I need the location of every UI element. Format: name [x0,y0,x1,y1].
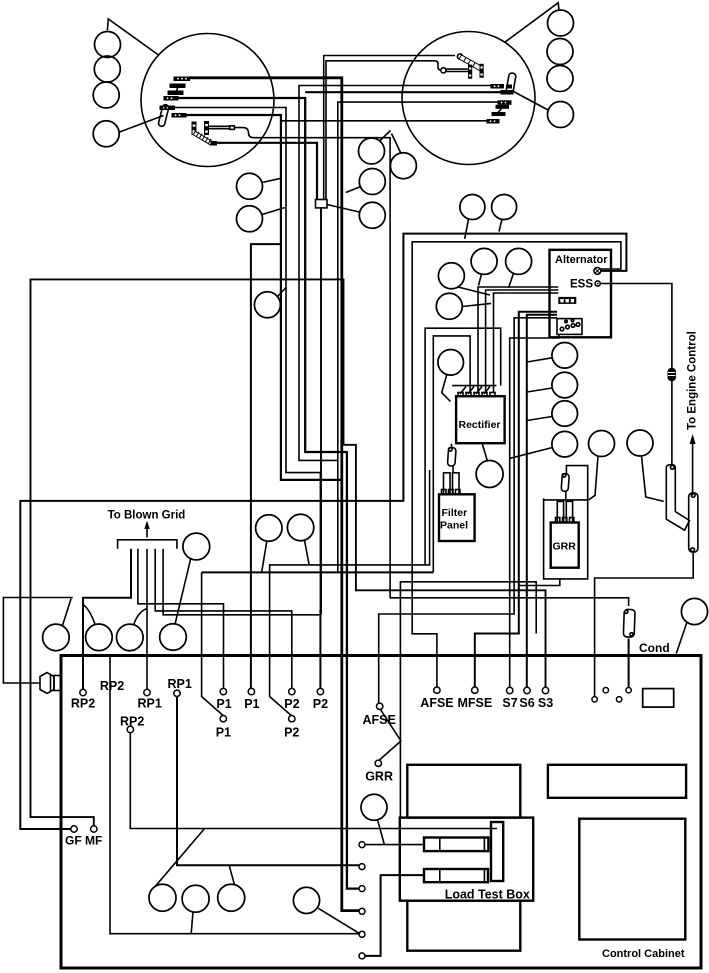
wire w5 (thick): T5 left circle to P1 second terminal [186,115,342,480]
curvy wire B in right circle with connector [404,61,441,71]
rectifier balloon [438,350,464,376]
leader from mid-right balloon 3 [346,187,361,193]
inner U-frame over rectifier (thick riser used by load wire) [433,336,470,573]
terminal C in right circle [491,84,505,89]
alternator balloon left 2 [436,293,462,319]
leader grid circle 1 [63,599,72,626]
svg-text:RP2: RP2 [71,697,95,711]
leader bottom circle 4 to dot 5 [318,908,360,934]
bottom circle 2 [182,885,209,912]
wire wE from right circle joining w4 [338,102,498,460]
svg-text:Panel: Panel [440,520,468,532]
svg-text:GF MF: GF MF [65,834,102,848]
svg-text:GRR: GRR [553,541,577,553]
svg-text:AFSE: AFSE [420,696,453,710]
small dot column 6 [359,953,365,959]
thick wire from fuse 2 to dot 6 [365,875,424,956]
leader from right balloon 1 to detail circle [505,3,559,42]
low terminal bar in left detail circle [211,141,218,146]
leader bottom circle 1 [155,829,204,887]
inner loop from B+ terminal to AFSE terminal [412,242,621,688]
GRR fuse capsule [561,474,569,492]
bus wire 5 to P2 second terminal [163,549,320,615]
terminal D (thick wire) in right circle [501,90,514,95]
GRR plug legs [557,501,563,522]
wire along cabinet interior to dot 5 [110,657,359,934]
terminal dot RP2 [80,689,86,695]
alternator box [550,250,612,337]
svg-text:Filter: Filter [442,507,468,519]
wire down to P1 lower terminal with diagonal [202,572,224,715]
terminal F in right circle [487,119,500,124]
small dot column 3 [359,886,365,892]
fuse capsule above filter panel [451,444,453,448]
wire dot3 stub to bundle [349,888,359,890]
mid-right balloon 3 [359,169,385,195]
svg-text:P2: P2 [284,726,299,740]
small dot column 2 [359,864,365,870]
MF terminal dot [91,826,97,832]
svg-text:Control Cabinet: Control Cabinet [602,948,685,960]
wire wA from right circle down to junction block [324,56,404,200]
leader from mid-right balloon 4 to junction block [327,205,359,213]
3-pin connector on alternator [558,297,576,304]
detail circle right (magnified connector view) [402,32,535,165]
leader alternator balloon inner 2 [509,273,514,288]
leader alternator balloon top 1 [465,219,469,239]
alternator balloon top 2 [492,195,517,220]
balloon 3 [93,82,119,108]
leader from mid balloon 3 [278,288,287,297]
wire from dot1 to fuse 1 [365,844,424,846]
tilted capsule terminal in right circle [506,73,517,95]
terminal dot RP1 [144,689,150,695]
terminal dot AFSE [434,687,440,693]
thick wire from plug to MFSE terminal [475,312,557,688]
blown grid balloon 2 [287,514,313,540]
terminal T1 in left detail circle [174,77,191,82]
terminal dot P2 lower [289,716,295,722]
wire from Y-connector to small terminal dot [595,552,694,697]
terminal dot P1 [220,688,226,694]
small terminal dot c [616,697,621,702]
mid-right balloon 2 [390,153,416,179]
wire w3 (thick): T3 down via x304 to bottom dot 3 [178,98,362,889]
leader bottom circle 3 [229,865,235,885]
wire from RP1 second terminal down and right (thick) [177,697,359,866]
terminal dot S6 [524,687,530,693]
bus wire 4 to P2 terminal [155,549,292,689]
three wires from 3-pin connector to rectifier [478,287,558,393]
balloon 3 [547,66,573,92]
balloon 4 [93,121,119,147]
leader from bus balloon to grid circle 4 [175,559,191,625]
wire wC from right circle to P1 lower-row terminal [299,86,491,573]
right column balloon 2 [552,372,578,398]
control cabinet box [61,656,701,969]
balloon near bus [183,533,210,560]
rectangle below load test box [407,901,520,951]
filter panel plug legs [444,473,451,495]
leader right column balloon 2 [527,388,552,392]
arrow up to engine control [692,442,694,495]
bottom circle 4 [293,887,319,913]
leader from right balloon 4 to capsule terminal [514,92,550,111]
balloon column left: balloon 1 [95,32,121,58]
small dot column 1 [359,842,365,848]
wire from plug to AFSE lower terminal [379,318,557,704]
leader alternator balloon inner 1 [479,274,482,286]
cable (double line) from connector pair [209,125,230,127]
wire beside filter panel down-left [270,470,430,716]
terminal dot RP2 second [127,726,133,732]
terminal T3 in left detail circle [164,96,179,101]
svg-text:P2: P2 [284,697,299,711]
hook grid circle 3 [134,609,147,625]
wire cond capsule to terminal [628,639,630,688]
wire w4: T4 down via x285 to P2 lower-row terminal [175,108,320,615]
arrow to blown grid [146,526,148,538]
wire stub to GRR enclosure [519,579,560,586]
svg-text:Rectifier: Rectifier [459,419,501,431]
rectifier box [456,396,505,443]
lower connector pair in left detail circle [192,122,197,136]
svg-text:S6: S6 [519,696,534,710]
wire from bottom circle 2 via cabinet loop [191,912,193,933]
leader from filter panel balloon to rectifier [483,445,488,461]
svg-text:RP2: RP2 [120,714,144,728]
filter panel box [439,494,475,541]
right column balloon 1 [552,343,578,369]
svg-text:ESS: ESS [570,279,593,291]
filter panel balloon [476,461,503,488]
alternator balloon inner 1 [471,248,497,274]
leader from balloon 1 to detail circle [107,19,158,55]
detail circle left (magnified connector view) [141,34,274,167]
alternator balloon left 1 [438,263,464,289]
terminal dot P2 second [317,688,323,694]
GRR box [551,523,579,568]
leader from mid balloon 1 [262,178,281,182]
svg-text:MFSE: MFSE [458,696,493,710]
grid circle 4 [160,624,187,651]
GRR enclosure outline [544,466,588,579]
wire wD from right circle joining w3 [305,91,500,93]
leader from GRR balloon [589,456,598,500]
leader alternator balloon top 2 [499,219,502,231]
terminal T2 (Z-link) in left detail circle [170,84,186,89]
balloon right of GRR [627,430,653,456]
mid balloon 3 [254,292,280,318]
svg-text:S7: S7 [502,696,517,710]
svg-text:To Engine Control: To Engine Control [687,331,699,430]
5-pin plug on alternator [557,319,582,335]
wire AFSE lower to GRR test point [379,710,401,761]
svg-text:RP2: RP2 [100,679,124,693]
svg-text:RP1: RP1 [168,677,192,691]
right column balloon 4 [552,431,578,457]
curvy wire A in right circle with connector [404,55,455,57]
small dot column 5 [359,931,365,937]
leader right column balloon 4 [510,448,552,459]
small dot column 4 [359,908,365,914]
wire from left edge to hex bolt [3,598,72,684]
wire branch to P1 second terminal [251,244,281,689]
small terminal dot d (cond) [626,688,631,693]
grid circle 3 [117,624,144,651]
svg-text:GRR: GRR [365,770,393,784]
leader from load balloon [378,820,385,845]
terminal T4 with tilted capsule in left detail circle [160,106,176,111]
svg-text:S3: S3 [538,696,553,710]
leader right column balloon 3 [527,417,552,421]
wire wF from right circle joining w4 vertical [281,120,487,122]
balloon 4 [548,102,574,128]
wire w1 (thick): T1 to bottom dot 4 [190,78,362,911]
fork connector right prong [689,493,698,552]
leader blown balloon 2 [305,541,310,565]
ESS terminal dot [595,281,600,286]
svg-text:P2: P2 [313,697,328,711]
rectifier terminal strip (comb) [452,385,496,387]
terminal T5 in left detail circle [172,113,187,118]
mid balloon 2 [237,206,263,232]
svg-text:RP1: RP1 [138,697,162,711]
wire from bundle down to load test box left edge [400,582,536,818]
leader from rectifier balloon [442,375,451,402]
rectangle above load test box [407,765,520,818]
GF terminal dot [71,826,77,832]
balloon top right of cabinet [681,598,707,624]
svg-text:Load Test Box: Load Test Box [445,888,530,902]
Z-link terminal in right circle [496,105,510,109]
cond capsule [623,609,635,637]
load test box [400,818,533,901]
terminal dot GRR test [375,760,381,766]
terminal dot P1 second [248,688,254,694]
svg-text:P1: P1 [216,726,231,740]
bus wire 1 (thick) to RP2 terminal [83,549,131,690]
right column balloon 3 [552,401,578,427]
svg-text:P1: P1 [244,697,259,711]
balloon above load test box [361,794,387,820]
svg-text:To Blown Grid: To Blown Grid [108,510,186,522]
terminal dot P2 [289,688,295,694]
rectangle right lower (cabinet) [579,819,685,940]
leader alternator balloon left 1 [458,287,490,295]
wire w6: cable to S7 terminal [234,128,628,606]
hatched ribbon in left detail circle [192,131,213,146]
small terminal dot a [592,697,597,702]
blown grid bus bracket [118,540,177,549]
leader from balloon to Y-connector [642,456,664,501]
hex bolt on cabinet wall [40,673,54,694]
junction block on bundle [316,200,328,208]
wire from plug down to GRR box [510,334,559,689]
fork connector left prong with diagonal [666,465,689,531]
ESS wire to engine control line [600,284,672,465]
alternator balloon top 1 [460,195,485,220]
balloon column right: balloon 1 [548,10,574,36]
grid circle 1 [43,624,70,651]
balloon 2 [94,56,120,82]
alternator balloon inner 2 [506,248,532,274]
hook grid circle 2 [83,605,95,625]
svg-text:P1: P1 [216,697,231,711]
mid-right balloon 4 [359,202,385,228]
wire P2 second drop [319,610,321,688]
terminal dot S7 [507,687,513,693]
small terminal dot b [603,688,608,693]
fuse 2 [424,869,488,882]
grid circle 2 [86,624,113,651]
thick wire from plug to S6 terminal [527,315,557,688]
bottom circle 1 [149,884,176,911]
bus wire 3 to RP1 terminal [146,549,148,690]
rectangle right upper (cabinet) [548,765,686,798]
balloon 2 [547,39,573,65]
wire w7 (thick): low bar through junction block to S3 terminal [217,143,317,200]
thick wire from P1 lower area to inner frame [202,571,434,573]
bus bar inside load test box [491,822,503,881]
balloon above GRR [589,431,615,457]
svg-text:Cond: Cond [639,641,670,655]
leader from mid-right balloon 1 [379,131,391,142]
terminal dot MFSE [472,687,478,693]
bottom circle 3 [218,884,245,911]
small rectangle on terminal row [643,689,674,708]
GF wire outer loop (thick) from alternator B+ terminal [20,234,626,829]
fuse 1 [424,838,488,852]
leader from mid balloon 2 [262,208,285,215]
MF wire loop [31,279,546,826]
leader from cabinet balloon [676,622,687,654]
mid balloon 1 [237,173,263,199]
wire from balloon corner into GRR enclosure [544,499,589,501]
terminal dot RP1 second [174,690,180,696]
leader blown balloon 1 [262,541,267,571]
ferrite bead on ESS wire [668,368,677,381]
leader right column balloon 1 [527,358,552,362]
terminal dot S3 [542,687,548,693]
blown grid balloon 1 [256,515,282,541]
terminal E in right circle [498,100,512,105]
wire wB from right circle down beside junction [326,61,404,199]
bus wire 2 to P1 terminal [138,549,224,689]
leader from mid-right balloon 2 [392,134,401,154]
wire from RP2 second terminal to load box bar [130,733,497,829]
B+ terminal (circle-x) on alternator [594,268,601,275]
svg-text:Alternator: Alternator [555,254,608,266]
outer U-frame over rectifier [425,328,501,565]
leader from balloon 4 to tilted terminal [119,116,164,133]
terminal dot AFSE lower [377,703,383,709]
terminal dot P1 lower [220,716,226,722]
leader alternator balloon left 2 [462,303,491,306]
mid-right balloon 1 [359,138,385,164]
